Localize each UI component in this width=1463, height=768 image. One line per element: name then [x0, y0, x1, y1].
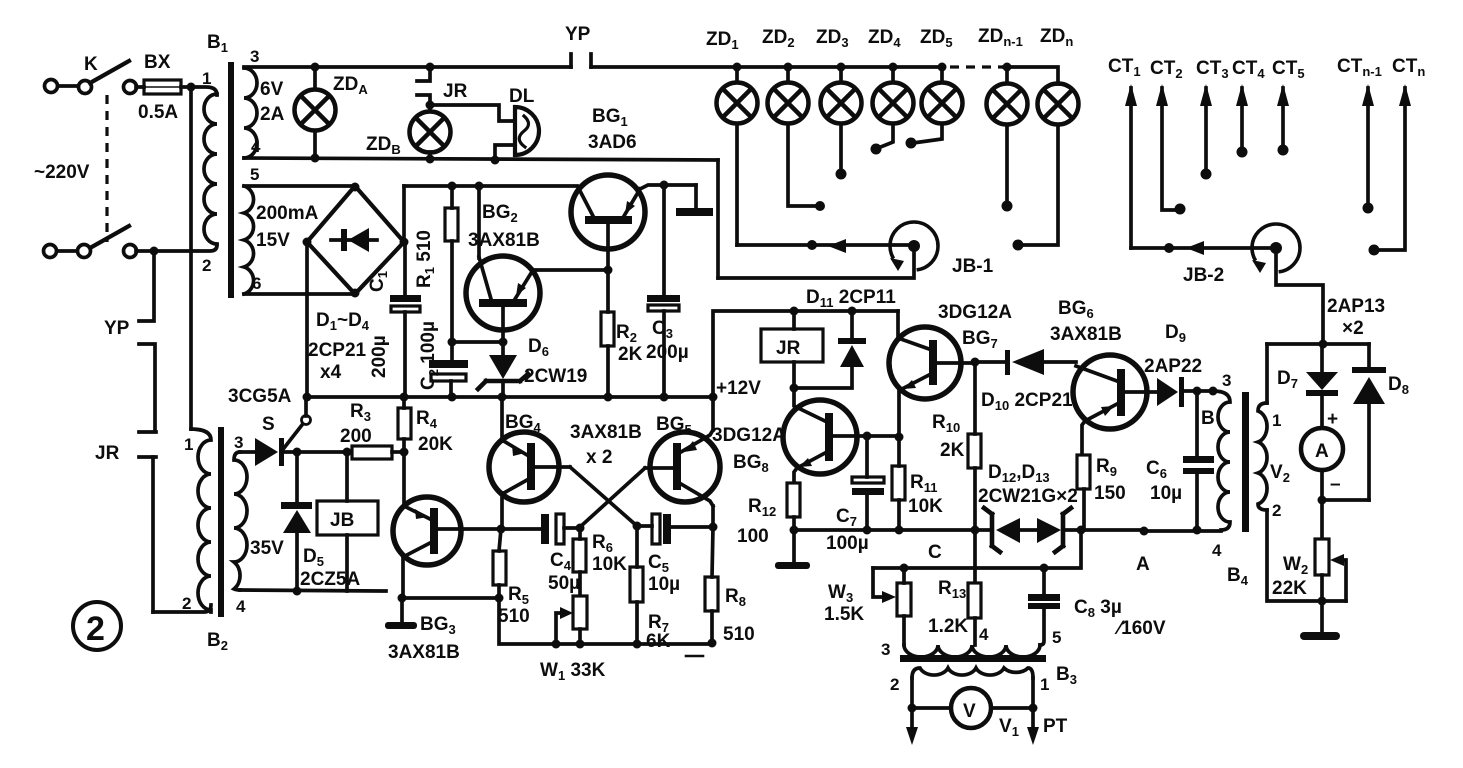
contact dot CTn — [1369, 245, 1380, 256]
node JR coil feed — [790, 307, 799, 316]
svg-text:35V: 35V — [250, 538, 284, 559]
svg-text:2AP22: 2AP22 — [1144, 356, 1202, 377]
wire BG1 emitter to right — [640, 185, 696, 189]
lamp ZD5 — [913, 67, 963, 143]
transformer B3 core — [900, 655, 1046, 662]
wire B4 pin2 down to ground rail — [1267, 510, 1346, 601]
wire BG2 collector to BG1 base node — [533, 268, 608, 272]
svg-text:W1 33K: W1 33K — [540, 660, 606, 683]
wire node to BG2 base — [452, 340, 503, 344]
svg-text:510: 510 — [498, 606, 530, 627]
svg-text:1.2K: 1.2K — [928, 616, 968, 637]
switch K upper pole — [45, 61, 130, 94]
node BG3 emitter — [398, 594, 407, 603]
capacitor C2 — [429, 342, 468, 397]
svg-text:1: 1 — [184, 435, 193, 454]
lamp ZD2 — [768, 67, 819, 206]
thyristor SCR 3CG5A — [240, 397, 311, 466]
node R11 top / BG7 emitter — [895, 433, 904, 442]
svg-text:A: A — [1315, 441, 1329, 462]
node ZD2 bus — [784, 63, 793, 72]
node BG1 base / BG2 collector / R2 — [604, 266, 613, 275]
lamp ZDA — [295, 67, 336, 158]
transformer B1 secondary 3-4 — [244, 68, 257, 158]
svg-text:2: 2 — [202, 256, 211, 275]
contact dot ZD2 — [815, 201, 825, 211]
wire B4 pin1 up to rectifier rail — [1265, 344, 1269, 403]
node switch lower — [150, 247, 159, 256]
resistor R8 — [705, 527, 718, 643]
node JR top branch — [426, 63, 435, 72]
wire D8 bottom to ammeter minus — [1322, 498, 1369, 502]
W3 rail — [873, 530, 1081, 568]
svg-text:⁄160V: ⁄160V — [1114, 618, 1166, 639]
resistor R2 — [601, 270, 614, 397]
svg-text:D11 2CP11: D11 2CP11 — [806, 287, 896, 310]
node ammeter minus — [1318, 496, 1327, 505]
resistor R7 — [630, 526, 643, 644]
svg-text:100: 100 — [737, 526, 769, 547]
wire BG4 emitter to +rail — [500, 397, 504, 441]
node C3 bottom on rail — [660, 393, 669, 402]
node bridge top — [351, 183, 360, 192]
ground at R12 — [775, 530, 810, 569]
svg-text:V: V — [963, 701, 976, 722]
svg-text:2: 2 — [890, 675, 899, 694]
svg-text:3: 3 — [234, 433, 243, 452]
wiper arrowhead JB-2 — [1186, 241, 1204, 255]
resistor R4 — [398, 397, 411, 452]
diode D11 — [794, 311, 866, 388]
node zener output — [1077, 526, 1086, 535]
wire +12V rail up to relay feed — [713, 311, 898, 397]
node D5 top — [293, 448, 302, 457]
node C7 bottom — [863, 526, 872, 535]
svg-text:3: 3 — [1222, 371, 1231, 390]
svg-text:–: – — [1330, 474, 1341, 495]
node ZDA bottom — [311, 154, 320, 163]
wire B1 pin6 to bridge bottom — [244, 292, 355, 296]
node BG7 base / R10 — [971, 358, 980, 367]
node ZDA top — [311, 63, 320, 72]
wire ammeter to W2 — [1320, 470, 1324, 539]
node ZD1 bus — [733, 63, 742, 72]
svg-text:3AX81B: 3AX81B — [388, 642, 460, 663]
wire D11 node to BG7 collector — [896, 311, 900, 339]
node C4/BG4 collector/BG3 base — [497, 525, 506, 534]
wire SCR cathode to R3 — [284, 450, 352, 454]
svg-text:A: A — [1136, 554, 1150, 575]
node bridge right — [400, 238, 409, 247]
zener D12 — [984, 508, 1037, 552]
node +12V rail corner — [709, 393, 718, 402]
diode D10 — [975, 349, 1076, 375]
contact dot CT3 — [1201, 169, 1212, 180]
ammeter A — [1301, 428, 1343, 470]
diode D7 — [1306, 344, 1338, 428]
node ZD3 bus — [837, 63, 846, 72]
relay contact JR top — [417, 67, 430, 111]
ground at BG3 — [385, 598, 417, 629]
node R7 bottom — [633, 640, 642, 649]
svg-text:3AX81B: 3AX81B — [570, 422, 642, 443]
node D5 bottom — [293, 587, 302, 596]
svg-text:200: 200 — [340, 426, 372, 447]
resistor R1 — [445, 185, 458, 342]
svg-text:10K: 10K — [908, 496, 943, 517]
svg-text:4: 4 — [236, 597, 246, 616]
wire bridge left corner down to +rail — [305, 242, 309, 397]
transformer B3 winding 3-4-5 — [904, 645, 1040, 657]
node BG2 emitter on rail — [475, 182, 484, 191]
plug YP top break — [571, 54, 591, 67]
transistor BG2 — [466, 256, 540, 342]
transformer B3 secondary winding — [912, 668, 1033, 678]
fuse BX — [144, 80, 181, 94]
capacitor C7 — [852, 436, 884, 530]
node C4/R6 — [576, 524, 585, 533]
transformer B2 primary winding — [191, 429, 211, 612]
svg-text:PT: PT — [1043, 716, 1068, 737]
svg-text:C2 100µ: C2 100µ — [418, 321, 441, 390]
contact dot CT2 — [1175, 204, 1186, 215]
node V1 right — [1029, 704, 1038, 713]
node W1 bottom on rail — [576, 640, 585, 649]
node C3 top — [660, 181, 669, 190]
node R11 bottom — [895, 526, 904, 535]
lamp ZDB — [410, 112, 451, 160]
diode D9 — [1157, 377, 1213, 407]
transistor BG6 — [1073, 355, 1157, 455]
transistor BG5 — [645, 430, 720, 506]
node BG2 base bottom — [499, 338, 508, 347]
wire B1 pin4 lower bus — [244, 158, 718, 160]
terminal CTn — [1378, 84, 1411, 250]
svg-text:YP: YP — [565, 24, 591, 45]
transistor BG7 — [889, 327, 975, 437]
transformer B4 left winding — [1213, 391, 1230, 530]
resistor R13 — [968, 583, 981, 645]
svg-text:15V: 15V — [256, 230, 290, 251]
transformer B1 secondary 5-6 — [244, 186, 254, 294]
svg-text:22K: 22K — [1272, 578, 1307, 599]
multivibrator ground rail — [499, 598, 712, 644]
svg-text:2AP13: 2AP13 — [1327, 296, 1385, 317]
node ZD4 bus — [889, 63, 898, 72]
node DL bottom — [491, 156, 500, 165]
wire B3 secondary left — [910, 678, 914, 708]
svg-text:4: 4 — [251, 137, 261, 156]
wire junction to B1 primary bottom — [154, 245, 217, 251]
svg-text:6K: 6K — [646, 631, 671, 652]
svg-text:JR: JR — [443, 81, 468, 102]
wire BG5 emitter to +rail corner — [711, 397, 715, 430]
wire JB-1 center to lower rail — [718, 246, 914, 278]
capacitor C1 — [390, 242, 421, 397]
wire R3 node down to BG3 collector — [402, 452, 406, 506]
node bridge bottom — [351, 289, 360, 298]
wire A rail to B4 pin4 — [1144, 529, 1221, 533]
C rail — [794, 528, 992, 532]
svg-text:3DG12A: 3DG12A — [938, 302, 1012, 323]
contact dot CT4 — [1237, 147, 1248, 158]
svg-text:C8 3µ: C8 3µ — [1074, 597, 1122, 620]
node R8 bottom — [708, 639, 717, 648]
wiper wire JB-2 to CT1 — [1131, 246, 1276, 250]
transistor BG1 — [571, 175, 645, 270]
svg-text:2K: 2K — [618, 344, 643, 365]
wire BG4 collector down — [500, 493, 504, 529]
capacitor C6 — [1183, 391, 1214, 530]
svg-text:3AX81B: 3AX81B — [1050, 324, 1122, 345]
wire B1 pin5 to bridge top — [244, 184, 355, 188]
svg-text:2CW21G×2: 2CW21G×2 — [978, 486, 1078, 507]
transformer B4 right winding — [1258, 403, 1267, 510]
resistor R3 — [352, 446, 404, 459]
rotary switch JB-2 — [1252, 224, 1300, 273]
capacitor C4 — [501, 514, 580, 544]
node R1/C2/BG2 base — [448, 338, 457, 347]
svg-text:1.5K: 1.5K — [824, 604, 864, 625]
svg-text:10µ: 10µ — [648, 574, 680, 595]
terminal CT2 — [1156, 84, 1176, 210]
transformer B1 core — [228, 62, 234, 298]
output arrow left (PT) — [906, 708, 918, 745]
relay contact JR left — [139, 432, 156, 612]
wire bridge right corner up to upper rail — [402, 186, 406, 242]
svg-text:R1 510: R1 510 — [414, 230, 437, 288]
cross-coupling wire BG4 base to C5 node — [570, 467, 637, 526]
wire JR to B2 pin2 — [153, 605, 211, 612]
svg-text:4: 4 — [1212, 541, 1222, 560]
svg-text:x 2: x 2 — [586, 447, 612, 468]
svg-text:2: 2 — [1272, 501, 1281, 520]
node C5 left / R7 — [633, 522, 642, 531]
terminal bar at BG1 right — [694, 185, 698, 208]
wire lower switch to junction — [136, 249, 154, 253]
wire lower bus corner to JB-1 rail — [716, 160, 720, 278]
terminal CT5 — [1277, 84, 1289, 146]
diode D5 — [281, 452, 312, 591]
potentiometer W3 — [873, 568, 911, 645]
transistor BG3 — [393, 497, 501, 598]
contact dot on JB-1 wiper line — [807, 240, 817, 250]
terminal CT1 — [1125, 84, 1137, 248]
node R12 bottom — [790, 526, 799, 535]
svg-text:JB-2: JB-2 — [1183, 265, 1224, 286]
output arrow right (PT) — [1027, 708, 1039, 745]
node bridge left — [303, 238, 312, 247]
contact dot ZDn-1 — [1002, 201, 1013, 212]
svg-text:3AD6: 3AD6 — [588, 132, 637, 153]
contact dot ZDn — [1013, 240, 1024, 251]
svg-text:10K: 10K — [592, 554, 627, 575]
transformer B2 secondary winding — [234, 452, 247, 590]
node rectifier feed — [1319, 340, 1328, 349]
top bus right of YP — [591, 65, 944, 69]
node C5 right / BG5 collector / R8 — [709, 523, 718, 532]
svg-text:3CG5A: 3CG5A — [228, 386, 292, 407]
node SCR gate on rail — [303, 393, 312, 402]
svg-text:2CW19: 2CW19 — [524, 366, 587, 387]
voltmeter V1 — [912, 688, 1033, 728]
svg-text:200mA: 200mA — [256, 203, 319, 224]
top bus to ZDn — [1004, 67, 1058, 84]
svg-text:3: 3 — [250, 47, 259, 66]
node W1 wiper on rail — [552, 640, 561, 649]
lamp ZDn — [1021, 84, 1079, 246]
relay coil JB — [317, 452, 378, 591]
wire fuse node down to B2 pin1 — [189, 87, 193, 429]
svg-text:10µ: 10µ — [1150, 483, 1182, 504]
svg-text:K: K — [84, 54, 98, 75]
node R3/R4 junction — [400, 448, 409, 457]
diode D8 — [1352, 344, 1386, 500]
lamp ZD3 — [821, 67, 862, 170]
potentiometer W2 — [1315, 539, 1346, 601]
node ZDB bottom — [426, 155, 435, 164]
node JB coil top — [343, 448, 352, 457]
zener D6 — [478, 342, 528, 397]
upper DC rail to BG1 — [404, 184, 577, 188]
switch K lower pole — [44, 226, 130, 258]
svg-text:2A: 2A — [260, 104, 285, 125]
svg-text:3: 3 — [881, 640, 890, 659]
resistor R6 — [573, 528, 586, 596]
svg-text:2: 2 — [182, 594, 191, 613]
node R2 bottom on rail — [604, 393, 613, 402]
node DL branch — [426, 101, 435, 110]
wire B1 pin3 to top bus — [244, 65, 571, 69]
switch mechanical link (dashed) — [105, 95, 108, 242]
node A — [1140, 527, 1149, 536]
svg-text:S: S — [262, 414, 275, 435]
svg-text:2CP21: 2CP21 — [308, 340, 367, 361]
node C2 bottom on rail — [448, 393, 457, 402]
svg-text:150: 150 — [1094, 483, 1126, 504]
zener D13 — [1037, 508, 1144, 552]
svg-text:4: 4 — [979, 625, 989, 644]
svg-text:5: 5 — [250, 165, 259, 184]
+12V rail — [306, 395, 713, 399]
svg-text:20K: 20K — [418, 434, 453, 455]
node C6 bottom — [1193, 526, 1202, 535]
svg-text:510: 510 — [723, 624, 755, 645]
capacitor C8 — [1028, 568, 1060, 645]
rectifier rail 2AP13 — [1267, 342, 1369, 346]
potentiometer W1 — [556, 596, 587, 644]
lower switch terminal circle — [124, 245, 137, 258]
svg-text:2K: 2K — [940, 440, 965, 461]
node ZDn-1 bus — [1003, 63, 1012, 72]
svg-text:2CZ5A: 2CZ5A — [300, 569, 360, 590]
wire node to DL upper — [430, 105, 514, 121]
wire fuse to node — [136, 85, 191, 89]
transistor BG4 — [489, 432, 570, 502]
wiper wire JB-1 to ZD1 — [737, 243, 914, 247]
plug YP (break) — [139, 251, 155, 431]
svg-text:1: 1 — [1040, 675, 1049, 694]
wire BG3 emitter to R5 node — [402, 596, 499, 600]
lamp ZD1 — [717, 67, 758, 245]
node W2 bottom — [1318, 597, 1327, 606]
wiper arrowhead JB-1 — [828, 239, 846, 253]
node R1 top on rail — [448, 182, 457, 191]
lamp ZDn-1 — [987, 67, 1028, 202]
figure number 2 — [73, 602, 121, 650]
svg-text:DL: DL — [509, 86, 535, 107]
svg-text:JB-1: JB-1 — [952, 256, 994, 277]
contact dot ZD5 — [906, 138, 917, 149]
svg-text:200µ: 200µ — [369, 335, 390, 378]
node R4 top on +rail — [400, 393, 409, 402]
cross-coupling wire BG5 base to C4 node — [580, 468, 645, 527]
relay coil JR (right) — [761, 311, 823, 388]
terminal CTn-1 — [1362, 84, 1374, 204]
resistor R9 — [1077, 455, 1090, 530]
node C rail / R10 — [971, 526, 980, 535]
resistor R11 — [892, 437, 905, 530]
node C7 top / BG8 base — [863, 432, 872, 441]
svg-text:5: 5 — [1052, 628, 1061, 647]
svg-text:3AX81B: 3AX81B — [468, 230, 540, 251]
svg-text:1: 1 — [1272, 411, 1281, 430]
transistor BG8 — [783, 388, 867, 483]
lamp ZD4 — [873, 67, 914, 148]
contact dot CT5 — [1278, 145, 1289, 156]
svg-text:B: B — [1201, 408, 1215, 429]
svg-text:3DG12A: 3DG12A — [712, 425, 786, 446]
svg-text:x4: x4 — [320, 362, 342, 383]
terminal CT3 — [1200, 84, 1212, 170]
wire BG2 emitter up to rail — [477, 186, 481, 258]
svg-text:50µ: 50µ — [548, 573, 580, 594]
wire B2 pin4 ground rail — [240, 590, 386, 591]
capacitor C5 — [637, 514, 713, 544]
wire JB-2 center to 2AP13 rail — [1276, 248, 1323, 344]
contact dot ZD4 — [871, 144, 882, 155]
svg-text:×2: ×2 — [1342, 318, 1364, 339]
resistor R12 — [787, 483, 800, 530]
ground at W2 — [1300, 601, 1340, 640]
resistor R5 — [493, 529, 506, 598]
node C8 top — [1040, 564, 1049, 573]
svg-text:JR: JR — [95, 443, 120, 464]
node W3 top — [900, 564, 909, 573]
bridge rectifier D1-D4 — [307, 186, 404, 294]
wire B3 secondary right — [1031, 678, 1035, 708]
resistor R10 — [968, 362, 981, 583]
transformer B1 primary winding — [204, 94, 217, 244]
wire fuse node to B1 primary top — [191, 87, 217, 95]
contact dot ZD3 — [836, 169, 847, 180]
node BG4 emitter on rail — [498, 393, 507, 402]
svg-text:BX: BX — [144, 52, 171, 73]
node D11 top — [848, 307, 857, 316]
contact dot on JB-2 wiper line — [1164, 243, 1174, 253]
rotary switch JB-1 — [890, 222, 938, 271]
bell DL — [495, 107, 539, 159]
svg-text:JB: JB — [330, 510, 354, 531]
node JR coil bottom / BG8 collector — [790, 384, 799, 393]
wire BG8 base node to R11 node — [867, 434, 899, 438]
node B4 pin3 — [1209, 387, 1218, 396]
node V1 left — [908, 704, 917, 713]
node ZD5 bus — [938, 63, 947, 72]
svg-text:200µ: 200µ — [646, 342, 689, 363]
svg-text:~220V: ~220V — [34, 162, 90, 183]
node R5 bottom — [495, 594, 504, 603]
